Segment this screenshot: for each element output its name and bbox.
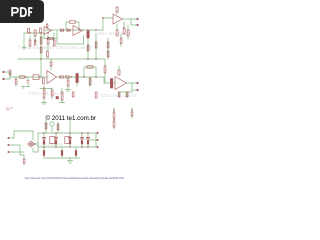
svg-text:© 2011 te1.com.br: © 2011 te1.com.br bbox=[46, 115, 97, 122]
svg-text:©2011 te1.com.br: ©2011 te1.com.br bbox=[28, 90, 65, 96]
svg-text:http://www.te1.com.br/2011/03/: http://www.te1.com.br/2011/03/circuito-a… bbox=[25, 177, 125, 180]
